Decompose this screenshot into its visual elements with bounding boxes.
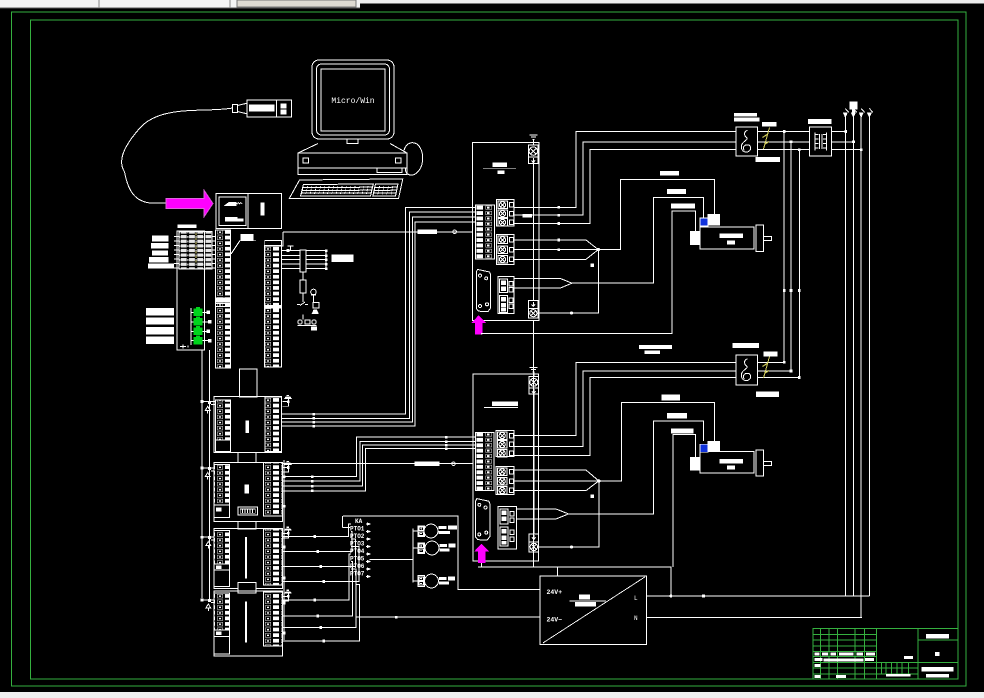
wire D1 encoder A: [514, 179, 714, 259]
module M5 line: [245, 601, 247, 642]
wire D2 shield: [673, 435, 696, 567]
strip-top terminator T2: [282, 461, 292, 472]
sensor S3: [418, 574, 439, 588]
wire D2 phase W: [514, 377, 799, 455]
wire D1 encoder B: [514, 198, 704, 289]
wire D2 encoder B: [516, 421, 703, 519]
battery symbol: [180, 345, 188, 349]
module M3 right strip: [264, 462, 283, 515]
wire D1 down-feed: [532, 321, 534, 567]
wire enable D1: [282, 230, 473, 246]
power output L wire: [647, 595, 870, 597]
D1 bottom fan terminal: [528, 301, 538, 318]
wire common horizontal: [478, 567, 671, 596]
D1 label: [483, 163, 516, 174]
input grid stubs: [212, 237, 215, 269]
D2 fan terminal: [529, 377, 538, 395]
svg-text:PTO3: PTO3: [350, 541, 365, 548]
wire D2 phase U: [514, 362, 784, 435]
top toolbar strip: [0, 0, 984, 8]
sensor connector rail: [413, 529, 418, 583]
wire bus M3 to D2: [282, 437, 475, 491]
connector C3: [238, 522, 256, 530]
sensor S1: [418, 524, 438, 538]
motor MT1 label: [720, 234, 744, 238]
mouse: [404, 143, 423, 175]
magenta arrow A3: [474, 544, 489, 563]
junction dots: [702, 130, 862, 597]
module M1 right terminal strip: [265, 246, 282, 368]
fan F1 label bottom: [755, 157, 780, 162]
input label bars: [148, 236, 174, 269]
motor MT1 body: [700, 227, 754, 249]
module M4 left sub-box: [214, 564, 230, 587]
bottom comp row: [298, 315, 318, 331]
CPU S7-200: [216, 194, 282, 229]
pto feeder M5: [282, 554, 359, 641]
resistor block RN2: [300, 280, 306, 293]
motor MT1 flange: [756, 225, 763, 251]
wire D1 phase W: [514, 150, 862, 224]
wire label tag: [523, 214, 532, 218]
mid drop lines: [784, 132, 799, 378]
module M2 body: [214, 397, 282, 453]
pto feeder ticks: [313, 535, 325, 642]
sensor S3 labels: [439, 577, 455, 585]
D1 plus-block P1: [497, 200, 515, 227]
wire power-top stub: [557, 567, 559, 576]
D2 plus-block P1: [496, 430, 514, 457]
input block outline box: [177, 231, 205, 350]
D1 plus-block P2: [497, 235, 515, 265]
connector C2: [238, 453, 256, 463]
sensor S1 labels: [439, 526, 457, 535]
yellow phase slash F1: [763, 128, 770, 150]
monitor stand: [347, 139, 358, 144]
wire D2 arrow stub: [481, 563, 483, 567]
magenta arrow A2: [471, 315, 486, 334]
connector C4: [238, 582, 256, 593]
enable label D1: [417, 230, 437, 234]
power supply box: [540, 576, 647, 644]
buzzer HA1: [312, 310, 319, 315]
module M2 left strip: [216, 400, 231, 452]
wire ticks: [558, 206, 561, 251]
title text blobs: [815, 634, 954, 678]
junction sq 2: [591, 495, 595, 499]
module M1 label: [231, 234, 256, 254]
wire D1 phase U: [514, 132, 846, 208]
D1 terminal strip: [475, 205, 494, 259]
sensor S2: [418, 541, 439, 555]
relay KA1: [313, 302, 319, 308]
D2 label: [484, 401, 518, 407]
left power rails: [202, 350, 210, 601]
motor MT1 labels above: [660, 171, 695, 209]
input wires to labels: [148, 237, 179, 269]
svg-text:PTO2: PTO2: [350, 533, 365, 540]
driver D2 box: [473, 374, 539, 561]
bus tick marks: [312, 413, 315, 427]
wire D1 fan return: [538, 250, 598, 313]
pto labels: [350, 518, 365, 578]
input top label: [178, 225, 197, 229]
motor MT1 left box: [691, 232, 701, 245]
yellow phase slash F2: [763, 357, 770, 379]
connector C1 between M1-M2: [240, 369, 258, 397]
desktop case: [298, 144, 407, 175]
junction sq: [591, 264, 595, 268]
module M3 display box: [238, 507, 258, 515]
module M2 right strip: [265, 397, 282, 452]
sensor drop lines: [845, 117, 869, 618]
module M4 right strip: [264, 529, 283, 585]
enable label D2: [415, 462, 440, 466]
green LED blocks: [194, 307, 203, 344]
module M1 left terminal strip: [216, 230, 231, 368]
lamp HL1: [311, 289, 317, 298]
svg-text:PTO4: PTO4: [350, 548, 365, 555]
fan F1 label top: [734, 113, 757, 117]
input terminal grid: [179, 232, 212, 270]
relay junction dots: [287, 249, 328, 270]
switch SA1: [297, 302, 308, 306]
D2 DB9 connector: [476, 499, 490, 540]
rail dot: [395, 616, 398, 619]
module M1 right strip header: [265, 241, 282, 247]
module M2 left sub-box: [216, 440, 231, 452]
motor MT2: [691, 441, 772, 476]
module M3 body: [214, 462, 282, 521]
wire D2 fan return: [538, 481, 598, 547]
svg-text:PTO6: PTO6: [350, 563, 365, 570]
return rail dots: [283, 475, 286, 634]
power label blob: [579, 595, 590, 600]
motor MT1 blue cap: [700, 218, 708, 226]
rail junction dots: [201, 400, 211, 602]
junction dots D1: [570, 248, 600, 315]
limit switches top: [843, 113, 872, 119]
wire D2 encoder A: [514, 402, 714, 490]
limit switch header: [849, 102, 857, 113]
module M3 bar: [245, 485, 249, 494]
sensor S2 labels: [440, 544, 456, 552]
power diagonal: [543, 577, 645, 643]
wire D1 phase V: [514, 142, 853, 215]
motor MT1 top box: [708, 214, 720, 225]
power output N wire: [647, 617, 862, 619]
D2 ground: [530, 368, 538, 378]
pto enclosure: [343, 516, 540, 589]
svg-text:PTO5: PTO5: [350, 556, 365, 563]
bottom status strip: [0, 692, 984, 698]
transformer T1 label: [808, 119, 832, 124]
module M2 bar: [245, 420, 249, 433]
relay label: [332, 254, 354, 262]
strip-top terminator T3: [282, 527, 292, 538]
bus tick marks 2: [311, 436, 448, 492]
wire D1 shield: [482, 211, 696, 334]
svg-text:Micro/Win: Micro/Win: [331, 97, 374, 106]
D2 plus-block P2: [496, 467, 514, 495]
module M4 line: [245, 537, 247, 578]
motor MT2 labels above: [661, 395, 693, 434]
wire D2 phase V: [514, 371, 791, 446]
wire D2 internal vert: [533, 394, 535, 534]
D2 signal block: [498, 507, 516, 549]
magenta arrow A1: [166, 190, 213, 217]
svg-text:PTO1: PTO1: [350, 526, 365, 533]
module M5 left sub-box: [214, 630, 230, 654]
usb connector: [233, 100, 292, 117]
pto row stubs: [342, 516, 413, 578]
D1 ground: [530, 135, 538, 145]
D1 signal block SB: [498, 277, 514, 314]
svg-text:24V+: 24V+: [547, 589, 563, 596]
motor MT1 shaft: [763, 236, 771, 240]
D1 fan terminal FU: [528, 145, 538, 163]
fan F2: [736, 355, 757, 385]
svg-text:PTO7: PTO7: [350, 571, 365, 578]
resistor block RN1: [300, 250, 306, 272]
wire bus M2 to D1: [282, 207, 476, 426]
module M3 left strip: [214, 465, 230, 518]
monitor U-PC: [312, 60, 394, 139]
relay wires: [282, 246, 327, 302]
keyboard: [289, 179, 403, 199]
D2 terminal strip: [475, 432, 494, 490]
fan F1 label right: [762, 122, 776, 127]
pto feeder M4: [282, 524, 359, 582]
module M4 body: [214, 528, 282, 588]
wire D1 internal vert: [532, 164, 534, 301]
lower input label bars: [146, 308, 174, 344]
svg-text:24V−: 24V−: [547, 617, 563, 624]
strip-top terminator T1: [282, 395, 292, 406]
yellow dashed trace: [195, 233, 197, 264]
wire enable D2: [282, 462, 473, 466]
module M5 left strip: [214, 593, 230, 654]
junction dots D2: [570, 479, 601, 548]
driver D1 box: [472, 143, 539, 321]
transformer T1: [810, 127, 832, 156]
svg-text:N: N: [634, 615, 638, 622]
rail taps to modules: [203, 401, 215, 611]
module M5 body: [214, 591, 282, 656]
pto bottom rail: [356, 585, 540, 618]
strip-top terminator T4: [282, 590, 292, 601]
LED wiring: [191, 308, 208, 345]
D1 DB9 connector: [476, 269, 490, 311]
module M4 left strip: [214, 531, 230, 587]
D2 bottom fan terminal: [529, 534, 538, 552]
module M5 right strip: [264, 592, 283, 646]
module M3 left sub-box: [214, 505, 230, 517]
svg-text:KA: KA: [355, 518, 363, 525]
wire module return rail: [283, 460, 285, 640]
fan F1: [736, 127, 757, 156]
svg-text:L: L: [634, 595, 638, 602]
usb cable wire: [122, 108, 233, 203]
fan F2 labels: [639, 343, 779, 397]
